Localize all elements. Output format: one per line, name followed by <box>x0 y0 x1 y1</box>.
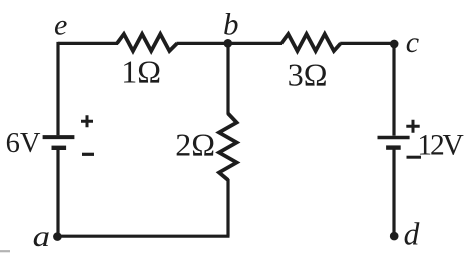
wire right vertical lower: 12V battery to d <box>392 150 395 237</box>
junction dot node c <box>390 40 399 49</box>
svg-text:d: d <box>404 216 420 251</box>
svg-text:1Ω: 1Ω <box>121 54 161 90</box>
svg-text:12V: 12V <box>417 130 463 162</box>
wire top-middle: R1 to b to R3 <box>177 42 283 45</box>
battery 6V short plate (negative) <box>52 146 67 150</box>
plus sign of 6V battery <box>81 115 93 127</box>
battery 12V short plate (negative) <box>386 145 401 149</box>
wire top-left: e to R1 <box>58 42 118 45</box>
node label a <box>33 220 50 253</box>
minus sign of 6V battery <box>82 153 94 156</box>
wire middle vertical upper: b to 2ohm resistor <box>226 43 229 114</box>
svg-text:3Ω: 3Ω <box>288 56 328 92</box>
svg-text:c: c <box>406 26 419 59</box>
scan artifact bottom-left <box>0 250 10 252</box>
wire top-right: R3 to c <box>340 42 394 45</box>
junction dot node a <box>53 232 62 241</box>
resistor 1ohm zigzag <box>117 34 177 51</box>
svg-text:2Ω: 2Ω <box>175 127 215 163</box>
junction dot node b <box>224 39 233 48</box>
wire middle vertical lower: 2ohm resistor to bottom wire <box>226 179 229 236</box>
junction dot node d <box>390 232 399 241</box>
wire bottom: a to 2ohm resistor bottom <box>57 235 230 238</box>
svg-text:e: e <box>54 9 67 42</box>
plus sign of 12V battery <box>406 120 419 133</box>
battery 6V long plate (positive) <box>43 135 75 139</box>
minus sign of 12V battery <box>407 156 422 159</box>
resistor 3ohm zigzag <box>282 34 341 51</box>
svg-text:6V: 6V <box>6 128 41 159</box>
battery 12V long plate (positive) <box>378 136 410 140</box>
wire right vertical upper: c to 12V battery <box>392 42 395 136</box>
resistor 2ohm vertical zigzag <box>219 114 237 181</box>
svg-text:a: a <box>33 220 50 253</box>
svg-text:b: b <box>223 7 239 42</box>
wire left vertical lower: 6V battery to a <box>56 150 59 238</box>
wire left vertical upper: e to 6V battery <box>56 42 59 135</box>
